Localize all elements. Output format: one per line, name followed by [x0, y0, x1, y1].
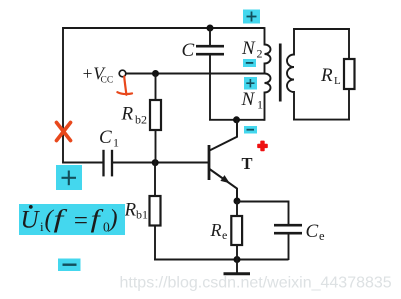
svg-text:R: R — [320, 65, 333, 86]
svg-text:2: 2 — [257, 47, 263, 61]
label Ui(f=f0) — [21, 205, 118, 235]
resistor RL — [344, 59, 355, 89]
resistor Rb1 — [150, 163, 161, 261]
svg-text:1: 1 — [113, 136, 119, 150]
wire: secondary bottom — [293, 119, 350, 121]
svg-text:i: i — [40, 219, 44, 234]
label RL — [320, 65, 341, 87]
highlight: Ui(f=f0) box — [19, 204, 125, 235]
label Ce — [306, 221, 326, 243]
node: top dot for C — [207, 25, 214, 32]
label Rb1 — [124, 200, 149, 222]
wire: secondary right upper — [348, 28, 350, 59]
svg-text:N: N — [241, 38, 256, 59]
svg-text:L: L — [334, 75, 341, 87]
wire: secondary right lower — [348, 89, 350, 121]
svg-text:=: = — [72, 208, 89, 235]
label N2 — [241, 38, 263, 61]
svg-text:R: R — [124, 200, 137, 221]
svg-text:C: C — [182, 40, 195, 61]
wire: collector rail — [209, 119, 265, 121]
highlight: minus at N2 bottom — [243, 59, 256, 67]
capacitor Ce — [274, 225, 302, 260]
node: emitter dot — [234, 198, 241, 205]
highlight: plus at N1 top — [244, 77, 257, 90]
node: base junction dot — [152, 159, 159, 166]
annotation: red X on input wire — [57, 123, 71, 141]
label C1 — [99, 127, 119, 150]
svg-text:U: U — [21, 207, 41, 234]
svg-text:N: N — [241, 89, 256, 110]
annotation: red arrow under Vcc — [117, 77, 132, 95]
transistor emitter arrowhead — [220, 175, 229, 183]
transistor collector lead — [210, 120, 238, 151]
svg-text:): ) — [107, 206, 117, 233]
transformer core — [279, 44, 282, 102]
transformer secondary winding — [287, 28, 294, 120]
node: ground junction dot — [234, 256, 241, 263]
wire: left vertical — [62, 27, 64, 163]
wire: top rail — [62, 27, 264, 29]
label +Vcc — [82, 64, 114, 86]
capacitor C — [196, 28, 224, 120]
wire: C1 to base — [113, 162, 209, 164]
annotation: red plus at collector — [257, 141, 268, 152]
transformer primary winding N2/N1 — [265, 27, 271, 121]
wire: bottom rail — [154, 259, 289, 261]
svg-text:R: R — [121, 104, 134, 125]
wire: secondary top — [293, 28, 350, 30]
svg-text:1: 1 — [257, 98, 263, 112]
highlight: plus top (secondary top of N2) — [243, 10, 260, 24]
svg-text:T: T — [242, 154, 253, 173]
svg-text:https://blog.csdn.net/weixin_4: https://blog.csdn.net/weixin_44378835 — [120, 275, 392, 292]
svg-text:R: R — [210, 220, 222, 240]
svg-text:C: C — [99, 127, 112, 148]
resistor Re — [231, 201, 242, 260]
transistor Q base bar — [208, 145, 211, 180]
highlight: minus bottom left — [58, 259, 81, 272]
wire: emitter to Ce branch — [237, 202, 289, 225]
highlight: plus at C1 input — [56, 165, 82, 190]
wire: Vcc feed to tap — [126, 73, 265, 75]
label Rb2 — [121, 104, 148, 127]
node: collector dot — [233, 116, 240, 123]
label N1 — [241, 89, 264, 112]
label Re — [210, 220, 228, 242]
node: dot Vcc/Rb2 — [152, 70, 159, 77]
svg-text:CC: CC — [101, 75, 114, 85]
svg-text:b1: b1 — [136, 208, 148, 222]
wire: left horizontal into C1 — [62, 162, 102, 164]
transistor emitter lead — [210, 169, 238, 201]
svg-text:e: e — [319, 229, 325, 243]
svg-text:e: e — [222, 228, 227, 242]
resistor Rb2 — [150, 74, 161, 164]
ground — [224, 260, 251, 274]
terminal +Vcc circle — [119, 70, 126, 77]
svg-text:b2: b2 — [135, 113, 147, 127]
highlight: minus at collector — [244, 126, 257, 134]
capacitor C1 — [104, 150, 113, 177]
svg-text:C: C — [306, 221, 319, 242]
